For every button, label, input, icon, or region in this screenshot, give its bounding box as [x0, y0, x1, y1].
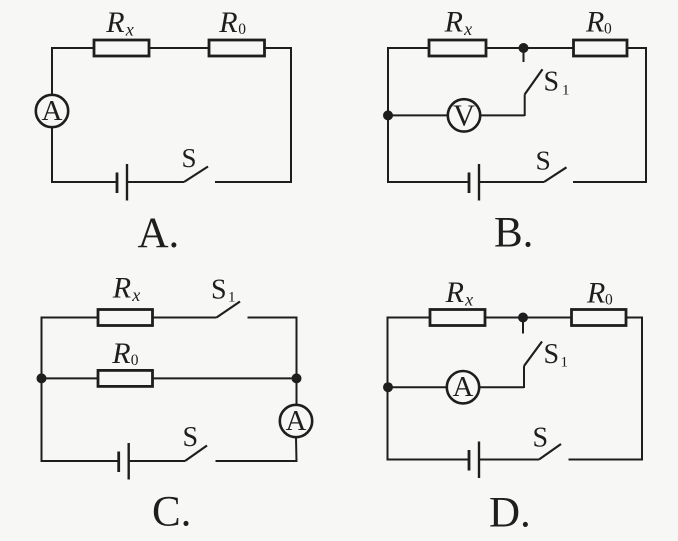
- svg-text:A: A: [286, 405, 307, 437]
- svg-text:S: S: [544, 339, 560, 370]
- svg-text:C.: C.: [152, 489, 191, 536]
- svg-text:S: S: [536, 145, 551, 176]
- svg-text:x: x: [131, 285, 140, 305]
- svg-text:R: R: [585, 6, 604, 39]
- svg-text:1: 1: [562, 83, 570, 99]
- svg-text:D.: D.: [489, 490, 531, 537]
- svg-text:A: A: [453, 371, 474, 403]
- svg-text:0: 0: [131, 352, 139, 369]
- svg-text:x: x: [464, 290, 473, 310]
- svg-text:B.: B.: [494, 210, 533, 257]
- svg-text:x: x: [125, 20, 134, 40]
- svg-text:0: 0: [238, 21, 246, 38]
- svg-text:A: A: [42, 95, 63, 127]
- svg-text:0: 0: [604, 21, 612, 38]
- svg-text:S: S: [182, 143, 197, 173]
- svg-text:R: R: [445, 276, 464, 309]
- svg-text:R: R: [105, 6, 124, 39]
- svg-text:1: 1: [561, 355, 569, 371]
- svg-text:x: x: [463, 19, 472, 39]
- svg-text:V: V: [453, 98, 475, 132]
- svg-text:A.: A.: [138, 210, 180, 257]
- svg-text:R: R: [111, 337, 130, 370]
- svg-text:S: S: [533, 423, 549, 454]
- svg-text:R: R: [444, 6, 463, 39]
- svg-text:S: S: [544, 67, 560, 98]
- svg-text:R: R: [218, 6, 237, 39]
- svg-text:R: R: [112, 272, 131, 305]
- svg-text:S: S: [211, 275, 227, 306]
- svg-text:S: S: [183, 422, 199, 453]
- svg-text:0: 0: [605, 292, 613, 309]
- svg-text:1: 1: [228, 290, 236, 306]
- svg-text:R: R: [586, 277, 605, 310]
